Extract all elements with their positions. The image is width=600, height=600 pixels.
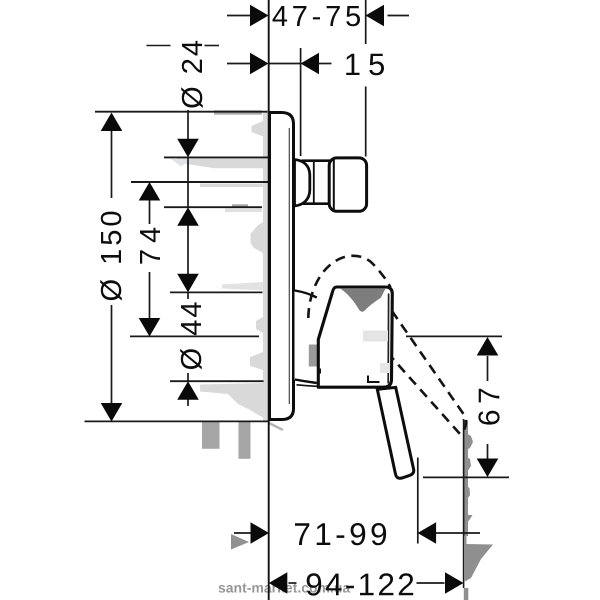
watermark sant-market.com.ua xyxy=(219,582,351,592)
right gray torn band xyxy=(464,420,473,600)
handle body xyxy=(318,287,392,387)
in-wall pipe stubs xyxy=(202,422,220,449)
dim 71-99 line y=533 xyxy=(234,532,252,534)
ext line x=300.6 (15) xyxy=(300,48,302,156)
concealed body silhouette (gray, in-wall) xyxy=(171,112,268,421)
arrow 47-75 left xyxy=(250,5,269,27)
ghost gray arrow (71-99) xyxy=(231,534,249,550)
dashed swing arc xyxy=(308,256,390,318)
light shading strips xyxy=(363,331,388,342)
dim 67 line x=487.5 xyxy=(487,356,489,381)
arrow 94-122 right xyxy=(445,572,464,594)
ext lever right x=417.8 (71-99) xyxy=(417,458,419,544)
inner highlight line right edge xyxy=(387,294,389,384)
small notch on left edge xyxy=(318,369,322,374)
cartridge nut xyxy=(309,345,317,367)
arrow 47-75 right xyxy=(366,5,385,27)
arrow O44 bottom xyxy=(177,381,199,400)
ext O44 bottom xyxy=(170,380,264,382)
ext handle axis (74 bottom) xyxy=(130,335,259,337)
ext line x=365.7 (47-75) xyxy=(365,0,367,44)
knob sleeve bulge xyxy=(295,160,310,207)
arrow 74 bottom xyxy=(139,318,161,337)
gray bar overlays xyxy=(214,110,262,114)
dim text O44 xyxy=(180,302,202,369)
escutcheon plate (side view) xyxy=(270,113,294,420)
arrow 71-99 left xyxy=(251,522,270,544)
ext plate top (O150) xyxy=(95,111,268,113)
dim O24/O44 line x=188 xyxy=(187,110,189,140)
dim 74 line x=149.5 xyxy=(149,200,151,225)
dimension arrows xyxy=(101,5,499,594)
ext O24 bottom xyxy=(164,206,262,208)
dim text O24 xyxy=(181,41,203,108)
plate inner face line xyxy=(288,128,290,404)
dashed lever lower edge xyxy=(392,358,460,434)
arrow 15 right xyxy=(301,53,320,75)
arrow O150 top xyxy=(101,113,123,132)
dark top wedge xyxy=(341,289,386,312)
arrow 67 top xyxy=(477,337,499,356)
dim 15 line xyxy=(227,63,251,65)
dim text 94-122 xyxy=(307,573,414,595)
ext O24 top xyxy=(164,156,268,158)
ext knob axis (74 top) xyxy=(131,181,268,183)
knob collar ring xyxy=(302,161,331,204)
dim text 71-99 xyxy=(295,523,386,545)
right gray blob over line xyxy=(464,536,493,582)
ext lever bottom (67) xyxy=(423,476,509,478)
ext O44 top xyxy=(170,291,263,293)
arrow 15 left xyxy=(250,53,269,75)
arrow O24 bottom xyxy=(177,207,199,226)
handle sleeve (cone between plate and handle) xyxy=(295,291,318,383)
dim 47-75 line xyxy=(227,15,251,17)
arrow 94-122 left xyxy=(269,572,288,594)
arrow O44 top xyxy=(177,274,199,293)
dashed lever upper edge + tip cap xyxy=(392,311,466,432)
dim O150 line x=111.5 xyxy=(111,130,113,198)
ext dashed-lever tip x=463.6 (94-122) xyxy=(463,419,465,588)
dim text 74 xyxy=(140,228,160,264)
ext handle axis right (67 top) xyxy=(406,335,502,337)
shadow diagonal below plate corner xyxy=(269,423,283,430)
arrow 74 top xyxy=(139,182,161,201)
dim text 15 xyxy=(346,54,384,76)
dim text 47-75 xyxy=(273,6,361,26)
dim 94-122 line y=583 xyxy=(289,582,297,584)
dim text 67 xyxy=(478,389,499,425)
tick line near O24 text xyxy=(147,45,171,47)
ext plate bottom (O150) xyxy=(85,420,270,422)
arrow 71-99 right xyxy=(418,522,437,544)
dimension/extension lines xyxy=(85,0,510,588)
dim text O150 xyxy=(100,212,122,301)
lever (solid position) xyxy=(377,387,413,478)
L mark xyxy=(368,376,380,383)
arrow O150 bottom xyxy=(101,403,123,422)
arrow O24 top xyxy=(177,139,199,158)
wall reference line xyxy=(268,0,270,600)
arrow 67 bottom xyxy=(477,459,499,478)
diverter knob: white underlay xyxy=(300,160,330,204)
knob body xyxy=(329,158,366,211)
